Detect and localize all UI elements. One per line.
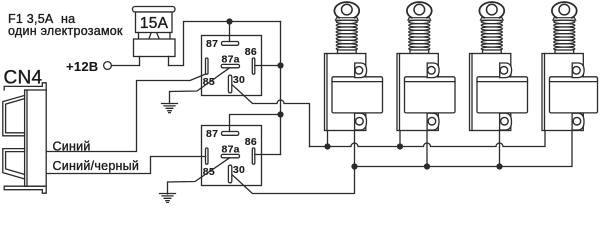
connector CN4 latch bottom wedge [3, 149, 25, 179]
junction dot bus1 M2 [397, 143, 403, 149]
relay K1 pin 87a label [222, 54, 240, 66]
connector CN4 latch top wedge [3, 95, 25, 135]
junction dot bus2 M1 [351, 163, 357, 169]
relay K2 case [202, 126, 262, 186]
relay K2 pin 87a label [222, 144, 240, 156]
actuator M3 neck [480, 18, 503, 21]
actuator M1 top tab [355, 63, 367, 78]
actuator M1 motor body [332, 77, 383, 113]
svg-text:86: 86 [245, 136, 257, 148]
actuator M4 [542, 2, 598, 130]
fuse blade left [139, 33, 152, 40]
junction dot bus1 M1 [324, 143, 330, 149]
wire fuse to feed riser [169, 22, 281, 66]
svg-text:87: 87 [206, 38, 218, 50]
actuator M3 backplate [470, 54, 511, 131]
actuator M4 spring [554, 20, 575, 50]
actuator M2 spring [409, 20, 430, 50]
actuator M2 bottom tab [427, 113, 439, 130]
relay K1 [202, 36, 262, 96]
label +12V [66, 59, 98, 74]
label F1 note [8, 12, 123, 38]
relay K1 pin 30 label [233, 74, 245, 86]
connector CN4 top plate [4, 83, 46, 90]
actuator M3 ring [479, 2, 504, 18]
wire K1 pin 86 to feed [255, 65, 281, 67]
relay K2 pin 87 pad [222, 132, 239, 136]
wire feed drop to K1 pin 87 [229, 22, 231, 42]
fuse F1 15A body [136, 12, 173, 33]
actuator M2 backplate [397, 54, 438, 131]
fuse F1 15A holder cap [133, 7, 176, 13]
svg-text:один электрозамок: один электрозамок [8, 24, 123, 38]
wire K1 pin 87a to ground [170, 68, 230, 104]
junction dot bus2 M3 [496, 163, 502, 169]
actuator M4 top tab [572, 63, 584, 78]
relay K1 case [202, 36, 262, 96]
relay K2 pin 85 label [203, 166, 215, 178]
wire K2 pin 87a to ground [168, 158, 230, 194]
relay K2 pin 85 pad [206, 148, 209, 164]
relay K2 pin 30 label [233, 164, 245, 176]
relay K1 pin 87 label [206, 38, 218, 50]
junction dot feed to K2 pin 87 [277, 111, 283, 117]
actuator M1 left wire [327, 131, 329, 147]
relay K2 [202, 126, 262, 186]
relay K1 pin 86 label [245, 46, 257, 58]
relay K2 pin 86 pad [252, 148, 255, 164]
svg-text:+12В: +12В [66, 59, 98, 74]
wire +12V to fuse [111, 65, 139, 67]
connector CN4 bottom plate [4, 186, 46, 193]
actuator M1 bottom tab [355, 113, 367, 130]
relay K1 pin 86 pad [252, 58, 255, 74]
junction dot feed to K1 pin 86 [277, 62, 283, 68]
relay K1 pin 87a pad [221, 64, 239, 67]
ground GND2 [160, 194, 176, 203]
svg-text:CN4: CN4 [4, 67, 43, 88]
actuator M3 top tab [500, 63, 512, 78]
relay K1 pin 87 pad [222, 42, 239, 46]
fuse holder right leg wire [168, 57, 170, 66]
wire label Siniy [53, 140, 91, 154]
actuator M3 [470, 2, 528, 130]
actuator M1 ring [334, 2, 359, 18]
actuator M3 spring end plate [483, 50, 502, 54]
svg-text:87a: 87a [222, 54, 240, 66]
actuator M2 top tab [427, 63, 439, 78]
actuator M2 neck [408, 18, 431, 21]
actuator M1 neck [335, 18, 358, 21]
actuator M3 spring [481, 20, 502, 50]
relay K1 pin 30 pad [228, 75, 231, 93]
actuator M4 motor body [550, 77, 598, 113]
actuator M1 backplate [325, 54, 366, 131]
fuse holder left leg wire [139, 57, 141, 66]
actuator M2 [397, 2, 455, 130]
actuator M4 bottom tab [572, 113, 584, 130]
actuator M2 right wire [426, 128, 428, 167]
relay K2 pin 86 label [245, 136, 257, 148]
connector CN4 body inner wall [26, 90, 28, 186]
actuator M3 motor body [477, 77, 528, 113]
wire feed to K2 pin 87 [230, 115, 281, 132]
terminal +12V circle [104, 62, 112, 70]
relay K1 pin 85 label [203, 76, 215, 88]
actuator M2 left wire [399, 131, 401, 147]
wire K1 pin 30 to bus1 [232, 85, 309, 147]
actuator M4 ring [552, 2, 577, 18]
actuator M1 spring end plate [338, 50, 357, 54]
svg-text:87a: 87a [222, 144, 240, 156]
svg-text:30: 30 [233, 164, 245, 176]
actuator M4 spring end plate [555, 50, 574, 54]
actuator M1 spring [336, 20, 357, 50]
actuator M2 ring [407, 2, 432, 18]
bus1 lock wire [310, 131, 546, 147]
junction dot feed to relay K1 pin 87 [226, 18, 232, 24]
wire Siniy CN4 to K1 pin 85 [47, 74, 206, 152]
fuse value label 15A [140, 15, 169, 32]
wire K2 pin 86 to feed [255, 154, 281, 156]
actuator M4 backplate [542, 54, 583, 131]
actuator M2 spring end plate [410, 50, 429, 54]
ground GND1 [162, 104, 178, 113]
junction dot bus2 M2 [424, 163, 430, 169]
svg-text:15A: 15A [140, 15, 169, 32]
bus2 unlock wire [355, 129, 573, 167]
wire Siniy/cherny CN4 to K2 pin 85 [47, 157, 206, 174]
wire label Siniy/cherny [53, 159, 140, 173]
actuator M2 motor body [405, 77, 456, 113]
relay K2 pin 87 label [206, 128, 218, 140]
wire K2 pin 30 to bus2 [232, 167, 354, 194]
wire +12V feed vertical [280, 22, 282, 155]
actuator M3 bottom tab [500, 113, 512, 130]
actuator M4 neck [553, 18, 576, 21]
actuator M1 right wire [354, 128, 356, 167]
fuse holder base [134, 39, 176, 57]
connector CN4 body [25, 90, 47, 186]
svg-text:86: 86 [245, 46, 257, 58]
svg-text:Синий/черный: Синий/черный [53, 159, 140, 173]
connector CN4 label [4, 67, 43, 88]
svg-text:87: 87 [206, 128, 218, 140]
relay K2 pin 87a pad [221, 154, 239, 157]
relay K2 pin 30 pad [228, 165, 231, 183]
actuator M3 right wire [499, 128, 501, 167]
svg-text:30: 30 [233, 74, 245, 86]
relay K1 pin 85 pad [206, 58, 209, 74]
actuator M1 [325, 2, 383, 130]
fuse blade right [157, 33, 170, 40]
